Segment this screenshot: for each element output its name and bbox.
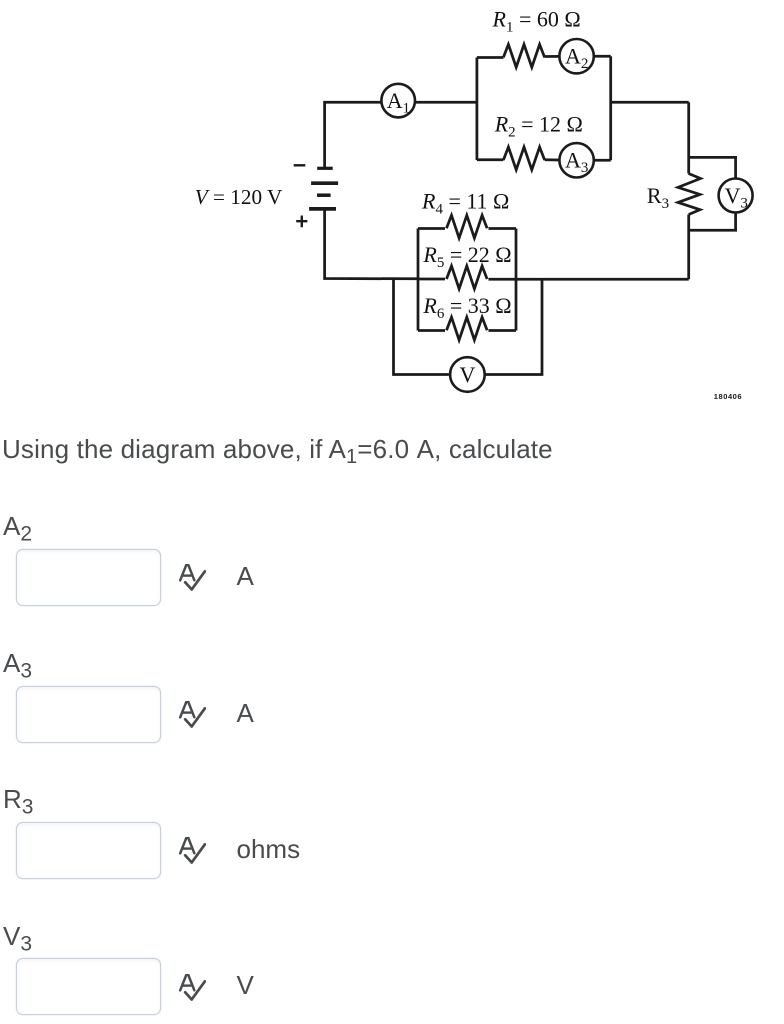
wire R2 to A3 xyxy=(545,158,560,161)
wire A1 to parallel box xyxy=(416,101,477,104)
input box A3 xyxy=(16,686,161,743)
wire R5 branch right to right rail xyxy=(489,278,689,281)
spellcheck icon icon3 xyxy=(179,837,206,864)
svg-text:3: 3 xyxy=(740,195,748,211)
resistor R3 xyxy=(678,174,701,215)
ammeter A3 xyxy=(559,143,593,177)
battery V xyxy=(317,167,333,170)
svg-text:1: 1 xyxy=(402,100,410,116)
svg-text:3: 3 xyxy=(581,160,589,176)
wire A3 to box right edge xyxy=(595,159,611,162)
battery plus sign xyxy=(296,216,307,228)
unit for V3 xyxy=(237,972,254,998)
ammeter A2 xyxy=(559,39,593,73)
svg-text:R1 = 60 Ω: R1 = 60 Ω xyxy=(492,7,581,36)
wire battery negative to top rail xyxy=(325,102,382,168)
wire R3 to bottom rail xyxy=(687,215,690,280)
input box V3 xyxy=(16,958,161,1015)
resistor R1 xyxy=(503,44,544,67)
node: parallel box left edge xyxy=(476,58,479,161)
svg-text:V = 120 V: V = 120 V xyxy=(195,185,283,209)
wire right rail down to R3 xyxy=(687,102,690,173)
wire battery positive to bottom rail xyxy=(325,209,418,279)
input box R3 xyxy=(16,822,161,879)
answer field A3 xyxy=(3,650,32,685)
answer field A2 xyxy=(3,513,32,548)
svg-text:R4 = 11 Ω: R4 = 11 Ω xyxy=(421,189,509,218)
resistor R2 xyxy=(503,147,544,170)
answer field R3 xyxy=(3,786,33,821)
wire bottom branch left xyxy=(477,158,504,161)
node: parallel box right edge xyxy=(609,56,612,160)
wire R4 branch right xyxy=(489,227,517,230)
svg-text:R3: R3 xyxy=(647,183,669,212)
ammeter A1 xyxy=(381,84,415,118)
unit for R3 xyxy=(237,836,301,862)
wire R6 branch left xyxy=(418,329,445,332)
svg-text:R2 = 12 Ω: R2 = 12 Ω xyxy=(494,112,583,141)
resistor R4 xyxy=(447,215,488,238)
resistor R5 xyxy=(447,266,488,289)
wire voltmeter loop right xyxy=(486,278,542,374)
node: R456 box right edge xyxy=(515,229,518,331)
voltmeter V xyxy=(450,357,485,392)
answer field V3 xyxy=(3,923,32,958)
svg-text:R6 = 33 Ω: R6 = 33 Ω xyxy=(422,293,511,322)
spellcheck icon icon4 xyxy=(179,974,206,1001)
svg-text:V: V xyxy=(459,362,475,387)
wire R4 branch left xyxy=(418,227,445,230)
svg-text:V: V xyxy=(725,183,741,208)
svg-text:A: A xyxy=(387,88,403,113)
input box A2 xyxy=(16,549,161,606)
unit for A2 xyxy=(237,563,254,589)
wire box to right rail xyxy=(611,101,689,104)
wire R1 to A2 xyxy=(545,55,560,58)
node: R456 box left edge xyxy=(417,229,420,331)
wire V3 branch bottom xyxy=(689,213,736,231)
wire R5 branch left xyxy=(418,278,445,281)
wire voltmeter loop left xyxy=(394,278,449,374)
spellcheck icon icon1 xyxy=(179,564,206,591)
svg-text:2: 2 xyxy=(581,56,589,72)
wire R6 branch right xyxy=(489,329,517,332)
resistor R6 xyxy=(447,317,488,340)
wire top branch left xyxy=(477,56,504,59)
voltmeter V3 xyxy=(719,179,753,213)
wire A2 to box right edge xyxy=(595,55,611,58)
wire V3 branch top xyxy=(689,157,736,178)
svg-text:A: A xyxy=(565,44,581,69)
svg-text:180406: 180406 xyxy=(714,392,742,401)
circuit schematic scanned figure xyxy=(0,0,784,410)
spellcheck icon icon2 xyxy=(179,701,206,728)
unit for A3 xyxy=(237,700,254,726)
battery minus sign xyxy=(294,164,306,166)
question text xyxy=(2,436,553,470)
svg-text:R5 = 22 Ω: R5 = 22 Ω xyxy=(422,242,511,271)
svg-text:A: A xyxy=(565,148,581,173)
